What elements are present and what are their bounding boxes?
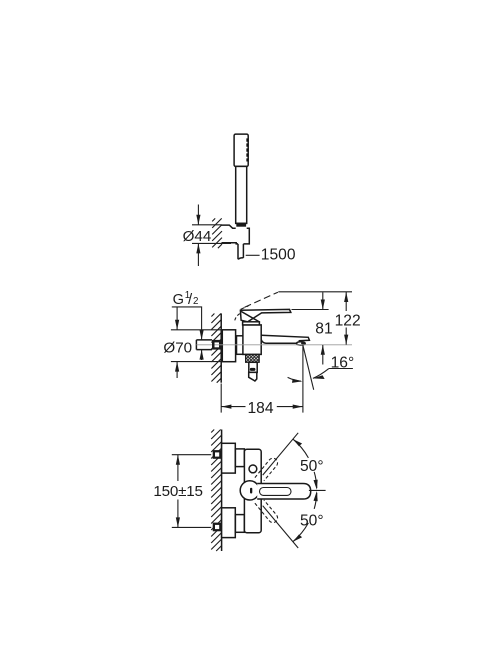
- svg-text:50°: 50°: [300, 512, 324, 529]
- svg-text:2: 2: [193, 296, 198, 307]
- diverter knurl: [246, 354, 260, 362]
- dim 184: [220, 384, 222, 413]
- upper union square: [213, 450, 222, 459]
- mixer body: [243, 325, 261, 355]
- pivot tick: [250, 488, 252, 494]
- svg-text:184: 184: [248, 400, 274, 417]
- wall hatch (view 2): [211, 314, 221, 383]
- dim 122 top reference line: [278, 291, 352, 293]
- lower dashed knob: [255, 500, 278, 523]
- svg-text:G: G: [173, 292, 184, 308]
- cartridge collar: [243, 322, 260, 325]
- dim Ø70 arrows: [176, 308, 178, 330]
- lever inner edge: [241, 311, 259, 321]
- dim Ø44 extension lines: [192, 225, 231, 244]
- dim Ø70 extension lines: [171, 330, 222, 362]
- lever (side): [240, 309, 290, 321]
- handle nut (dark): [236, 223, 246, 227]
- dim 150+-15 lines + arrows: [177, 455, 179, 481]
- 16 degree arc left w/ arrow: [288, 377, 301, 381]
- centerline right of lever: [309, 489, 326, 491]
- wall hatch (view 3): [211, 430, 221, 552]
- upper dashed knob: [255, 458, 278, 481]
- arc arrowheads: [293, 439, 302, 446]
- svg-text:Ø70: Ø70: [163, 339, 192, 356]
- shower outlet tube: [249, 362, 257, 372]
- pivot circle: [240, 481, 259, 500]
- lower 50 deg line: [263, 506, 299, 548]
- svg-text:50°: 50°: [300, 458, 324, 475]
- spray face dashed strip: [246, 138, 248, 161]
- wall holder: [222, 225, 250, 244]
- outlet dark band: [250, 368, 256, 371]
- union in wall (dark square): [212, 340, 221, 350]
- lower s-union: [235, 515, 244, 533]
- spout top: [261, 335, 309, 341]
- lower union square: [213, 523, 222, 532]
- lever inner contour: [260, 488, 292, 496]
- 16 degree stream line: [303, 345, 314, 390]
- temp limiter circle: [249, 465, 257, 473]
- dim Ø44 arrows: [197, 205, 199, 225]
- leader 1500: [246, 254, 260, 256]
- lever raised position (dashed): [245, 292, 278, 307]
- shower head: [234, 134, 248, 166]
- lever swing arc (dashed): [235, 314, 240, 322]
- svg-text:150±15: 150±15: [153, 483, 202, 500]
- plumb line from spout tip: [302, 345, 304, 412]
- dim 81 top reference line: [292, 309, 329, 311]
- shower hose: [238, 244, 243, 259]
- outlet adapter: [249, 372, 257, 381]
- mixer body (front): [244, 449, 261, 532]
- lower escutcheon: [222, 508, 236, 538]
- svg-text:Ø44: Ø44: [183, 228, 212, 245]
- svg-text:1500: 1500: [261, 247, 296, 264]
- dim 150+-15 extension lines: [172, 455, 211, 528]
- dim G1/2 leader: [172, 307, 202, 360]
- wall face line: [220, 313, 222, 382]
- svg-text:122: 122: [335, 312, 361, 329]
- wall hatch (view 1): [212, 218, 222, 248]
- s-union connector: [237, 336, 245, 355]
- wall face line: [221, 430, 223, 552]
- 16 degree arc right w/ arrow: [313, 369, 329, 379]
- centerline: [196, 344, 212, 346]
- supply pipe stub G1/2: [196, 340, 212, 350]
- aerator: [296, 342, 305, 345]
- escutcheon: [222, 330, 235, 362]
- shower handle: [236, 166, 247, 223]
- spout lower contour: [261, 340, 297, 344]
- upper s-union: [235, 449, 244, 467]
- upper 50 deg line: [263, 433, 299, 475]
- dim 122: [345, 292, 347, 311]
- svg-text:81: 81: [315, 321, 332, 338]
- upper escutcheon: [222, 443, 236, 473]
- lever (front): [257, 484, 311, 500]
- 50 deg arc segments: [293, 439, 309, 458]
- dim 81: [322, 292, 324, 309]
